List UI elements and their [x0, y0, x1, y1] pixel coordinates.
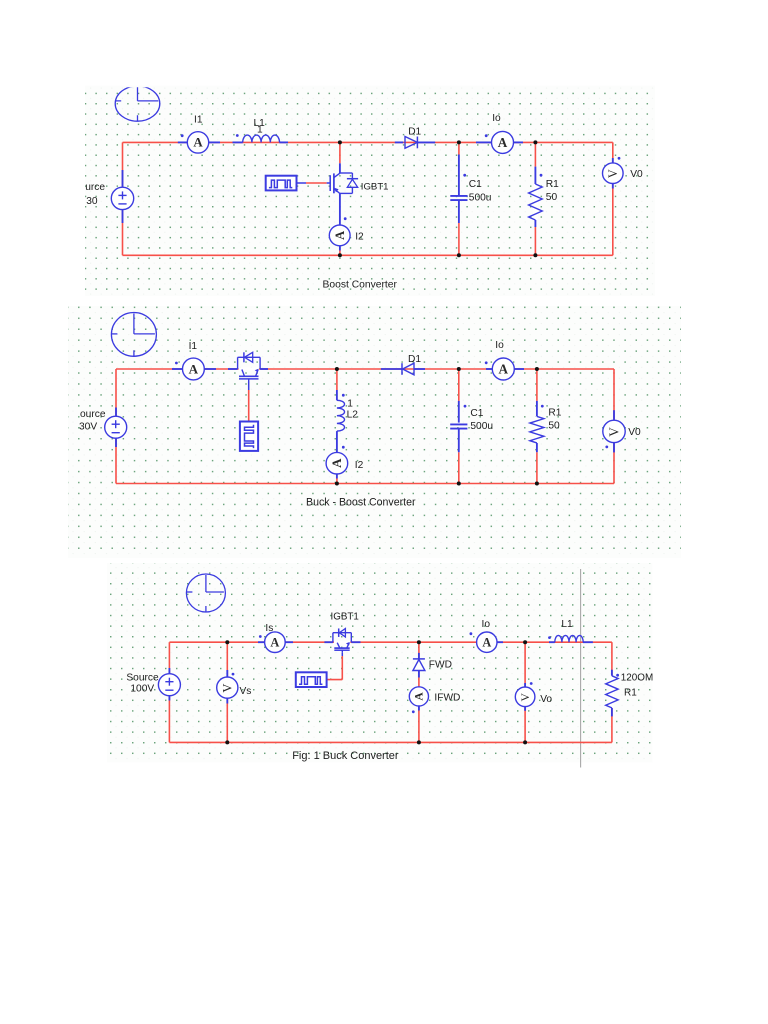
svg-text:A: A: [499, 361, 509, 376]
svg-text:V0: V0: [630, 169, 643, 180]
svg-text:IGBT1: IGBT1: [331, 611, 359, 622]
svg-text:R1: R1: [548, 408, 561, 419]
svg-text:R1: R1: [624, 687, 637, 698]
svg-text:V: V: [606, 427, 621, 437]
svg-text:1: 1: [347, 399, 353, 410]
svg-text:D1: D1: [408, 354, 421, 365]
svg-text:FWD: FWD: [429, 660, 452, 671]
svg-text:A: A: [414, 692, 426, 701]
svg-text:A: A: [189, 361, 199, 376]
svg-text:ource: ource: [80, 409, 106, 420]
svg-text:100V: 100V: [130, 683, 154, 694]
svg-text:30V: 30V: [79, 422, 97, 433]
svg-text:A: A: [270, 635, 279, 649]
svg-text:urce: urce: [85, 182, 105, 193]
svg-text:A: A: [498, 135, 508, 150]
svg-text:Buck - Boost Converter: Buck - Boost Converter: [306, 497, 416, 509]
svg-text:L1: L1: [561, 619, 573, 630]
svg-text:Io: Io: [482, 619, 491, 630]
svg-text:30: 30: [86, 196, 98, 207]
svg-text:Is: Is: [265, 623, 273, 634]
svg-text:V: V: [606, 169, 620, 178]
svg-text:IGBT1: IGBT1: [361, 182, 389, 193]
svg-text:500u: 500u: [469, 193, 492, 204]
svg-text:D1: D1: [408, 126, 421, 137]
svg-text:50: 50: [548, 420, 560, 431]
svg-text:120OM: 120OM: [621, 672, 653, 683]
svg-text:I1: I1: [189, 341, 198, 352]
svg-text:I1: I1: [194, 115, 203, 126]
svg-text:V: V: [519, 692, 532, 701]
svg-text:L2: L2: [347, 409, 359, 420]
svg-text:A: A: [329, 458, 344, 468]
svg-text:Fig: 1 Buck Converter: Fig: 1 Buck Converter: [292, 750, 399, 762]
svg-text:Vo: Vo: [540, 694, 552, 705]
svg-text:R1: R1: [546, 179, 559, 190]
svg-text:Source: Source: [126, 672, 159, 683]
svg-text:C1: C1: [469, 179, 482, 190]
svg-text:V: V: [221, 684, 235, 693]
svg-text:Boost Converter: Boost Converter: [323, 280, 398, 291]
svg-text:I2: I2: [355, 460, 364, 471]
svg-text:Vs: Vs: [240, 686, 252, 697]
svg-text:A: A: [482, 635, 491, 649]
svg-text:50: 50: [546, 192, 558, 203]
svg-text:1: 1: [257, 125, 263, 136]
svg-text:IFWD: IFWD: [434, 693, 460, 704]
svg-text:V0: V0: [628, 427, 641, 438]
svg-text:A: A: [193, 136, 203, 150]
svg-text:C1: C1: [470, 408, 483, 419]
svg-text:I2: I2: [355, 231, 364, 242]
svg-text:500u: 500u: [470, 421, 493, 432]
svg-text:Io: Io: [495, 340, 504, 351]
svg-text:A: A: [333, 231, 347, 240]
svg-text:Io: Io: [492, 113, 501, 124]
